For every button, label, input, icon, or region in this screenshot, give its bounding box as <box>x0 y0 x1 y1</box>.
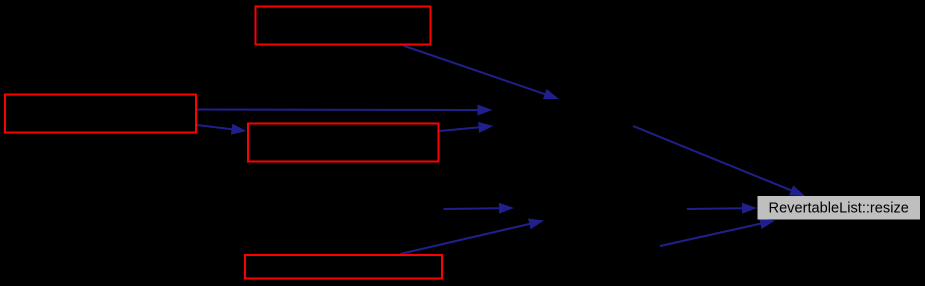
svg-text:RevertableList::resize: RevertableList::resize <box>769 201 909 217</box>
